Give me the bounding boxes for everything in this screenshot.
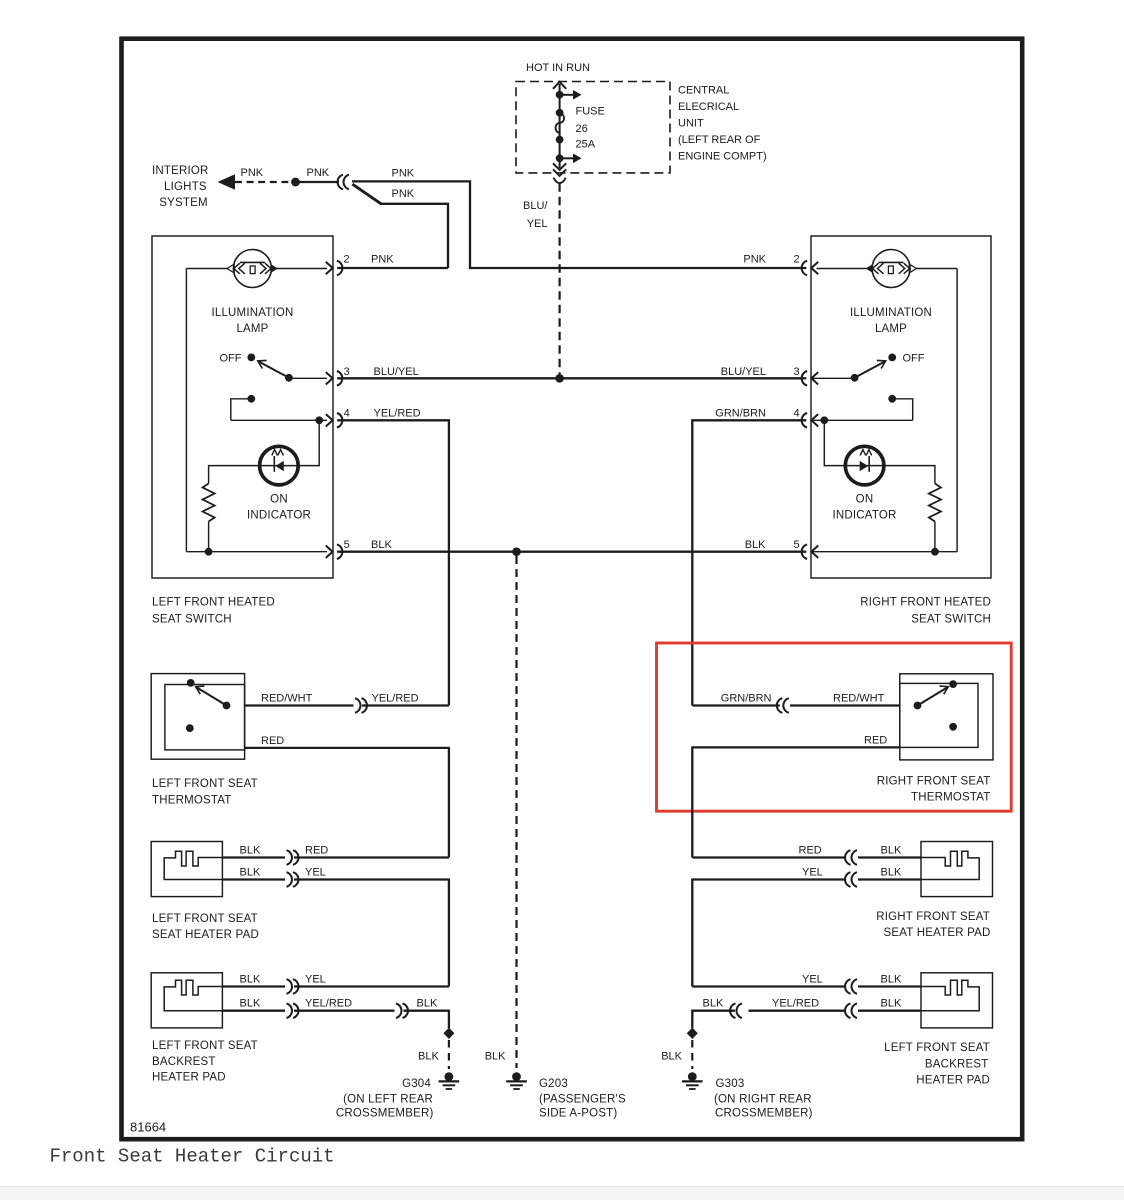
wire YEL/RED left pin4 down to thermostat — [337, 420, 449, 705]
heater element right seat pad — [921, 851, 979, 879]
switch blade right (heater switch) — [855, 361, 886, 378]
svg-text:25A: 25A — [576, 139, 596, 151]
svg-text:PNK: PNK — [392, 188, 415, 200]
svg-text:BLK: BLK — [661, 1051, 682, 1063]
svg-text:RED: RED — [261, 735, 284, 747]
pin 5 right switch — [811, 546, 818, 558]
arrow feed to other circuits (top) — [560, 94, 574, 96]
svg-text:CROSSMEMBER): CROSSMEMBER) — [715, 1108, 813, 1120]
svg-text:BLK: BLK — [703, 998, 724, 1010]
svg-text:SEAT HEATER PAD: SEAT HEATER PAD — [152, 929, 259, 941]
svg-text:THERMOSTAT: THERMOSTAT — [911, 792, 991, 804]
svg-text:BLK: BLK — [881, 867, 902, 879]
svg-text:CROSSMEMBER): CROSSMEMBER) — [336, 1108, 434, 1120]
switch contact OFF (left) — [247, 354, 255, 362]
svg-text:4: 4 — [344, 407, 350, 419]
wire BLK to ground drop G304 — [404, 1011, 449, 1029]
node resistor on pin5 line (left) — [205, 548, 213, 556]
wire PNK dashed to interior lights — [235, 181, 291, 183]
svg-text:81664: 81664 — [130, 1120, 166, 1135]
svg-text:INTERIOR: INTERIOR — [152, 165, 209, 177]
arrow out of CEU (double chevron down) — [553, 163, 566, 170]
node LED branch on pin4 (left) — [315, 416, 323, 424]
svg-text:YEL: YEL — [527, 218, 548, 230]
wire YEL top left backrest — [294, 985, 449, 987]
arrow up to HOT IN RUN — [553, 82, 566, 89]
wire BLK between switches — [337, 551, 806, 553]
connector right backrest bottom 2 — [845, 1003, 850, 1018]
right heated seat switch box — [811, 236, 991, 578]
LED ON indicator left — [260, 446, 299, 485]
svg-text:ELECRICAL: ELECRICAL — [678, 101, 739, 113]
svg-text:SEAT SWITCH: SEAT SWITCH — [911, 614, 991, 626]
svg-text:Front Seat Heater Circuit: Front Seat Heater Circuit — [50, 1146, 335, 1168]
wire YEL/RED left backrest — [294, 1010, 395, 1012]
wire pin4 down to ON indicator (left) — [300, 420, 319, 465]
wire YEL from left seat pad down to backrest — [294, 880, 449, 987]
heater element left seat pad — [164, 851, 222, 879]
pin 5 left switch — [326, 546, 333, 558]
wire RED from right thermostat down to seat pad — [692, 747, 900, 857]
connector left seat pad top — [287, 850, 292, 865]
ground G303 — [688, 1072, 697, 1081]
wire pin4 down to ON indicator (right) — [824, 420, 843, 465]
splice on G304 drop — [443, 1028, 454, 1039]
svg-text:3: 3 — [344, 366, 350, 378]
switch common node on pin 3 (left) — [285, 374, 293, 382]
svg-text:PNK: PNK — [307, 167, 330, 179]
central electrical unit dashed box — [516, 82, 670, 173]
wire BLK dashed down to G203 — [515, 556, 517, 1068]
svg-text:BLU/YEL: BLU/YEL — [721, 366, 766, 378]
wire pin3 internal (right) — [811, 377, 854, 379]
connector in-line right thermostat — [783, 698, 788, 713]
heater element right backrest pad — [921, 980, 979, 1010]
node BLK junction to G203 — [512, 547, 521, 556]
svg-text:BLK: BLK — [417, 998, 438, 1010]
wire BLK top right backrest — [858, 985, 921, 987]
node BLU/YEL junction with fuse feed — [555, 374, 564, 383]
svg-text:2: 2 — [794, 254, 800, 266]
wire BLK top left backrest — [222, 985, 285, 987]
svg-text:YEL/RED: YEL/RED — [772, 998, 819, 1010]
svg-text:LIGHTS: LIGHTS — [164, 181, 207, 193]
wire LED to resistor (right) — [884, 466, 935, 484]
connector left backrest bottom 1 — [287, 1003, 292, 1018]
pin 4 left switch — [326, 414, 333, 426]
svg-text:2: 2 — [344, 254, 350, 266]
svg-text:LEFT FRONT SEAT: LEFT FRONT SEAT — [152, 1040, 258, 1052]
svg-text:PNK: PNK — [743, 254, 766, 266]
wire GRN/BRN right pin4 down to thermostat — [692, 420, 806, 705]
resistor right — [929, 484, 941, 522]
arrow to interior lights system — [218, 174, 236, 189]
svg-text:YEL: YEL — [305, 974, 326, 986]
svg-text:3: 3 — [794, 366, 800, 378]
switch contact OFF (right) — [888, 354, 896, 362]
svg-text:BACKREST: BACKREST — [152, 1056, 216, 1068]
left front seat seat heater pad box — [151, 842, 222, 897]
svg-text:G203: G203 — [539, 1078, 568, 1090]
wire RED/WHT from left thermostat — [245, 704, 354, 706]
svg-text:(ON RIGHT REAR: (ON RIGHT REAR — [714, 1094, 812, 1106]
wire BLK bottom left backrest — [222, 1010, 285, 1012]
node LED branch on pin4 (right) — [820, 416, 828, 424]
svg-text:BLK: BLK — [485, 1051, 506, 1063]
svg-text:BLK: BLK — [881, 998, 902, 1010]
wire BLK bottom right backrest to ground drop — [692, 1011, 921, 1029]
svg-text:LEFT FRONT SEAT: LEFT FRONT SEAT — [152, 913, 258, 925]
connector in-line PNK pair — [338, 175, 343, 190]
svg-text:BLK: BLK — [745, 539, 766, 551]
wire BLU/YEL between switches — [337, 377, 806, 379]
svg-text:RED/WHT: RED/WHT — [261, 693, 313, 705]
svg-text:RIGHT FRONT HEATED: RIGHT FRONT HEATED — [860, 597, 991, 609]
svg-text:BLK: BLK — [418, 1051, 439, 1063]
wire pin4 internal (right) — [811, 419, 912, 421]
wire pin5 internal (left) — [186, 551, 327, 553]
svg-text:BLK: BLK — [240, 998, 261, 1010]
wire PNK to left heated seat switch pin 2 — [337, 184, 448, 268]
pin 2 right switch — [811, 262, 818, 274]
wire BLK top left seat pad — [222, 856, 285, 858]
left front seat thermostat box — [151, 674, 244, 760]
svg-text:RED: RED — [305, 845, 328, 857]
wire resistor to pin5 (left) — [208, 522, 210, 552]
svg-text:GRN/BRN: GRN/BRN — [715, 407, 766, 419]
svg-text:YEL/RED: YEL/RED — [374, 407, 421, 419]
svg-text:26: 26 — [576, 123, 588, 135]
svg-text:RED: RED — [864, 735, 887, 747]
switch contact lower (left) — [247, 395, 255, 403]
LED ON indicator right — [845, 446, 884, 485]
svg-text:SIDE A-POST): SIDE A-POST) — [539, 1108, 617, 1120]
svg-text:SEAT SWITCH: SEAT SWITCH — [152, 614, 232, 626]
connector right backrest bottom 1 — [730, 1003, 735, 1018]
pin 3 left switch — [326, 372, 333, 384]
wire YEL right seat pad down to backrest — [692, 880, 844, 987]
wire BLK top right seat pad — [858, 856, 921, 858]
svg-text:PNK: PNK — [241, 167, 264, 179]
illumination lamp right — [916, 268, 957, 270]
svg-text:BLK: BLK — [881, 974, 902, 986]
wire BLK bottom right seat pad — [858, 878, 921, 880]
svg-text:(LEFT REAR OF: (LEFT REAR OF — [678, 134, 761, 146]
illumination lamp left — [186, 268, 227, 270]
svg-text:LAMP: LAMP — [236, 323, 268, 335]
wire PNK splice to connector — [300, 181, 340, 183]
resistor left — [203, 484, 215, 522]
arrow feed to other circuits (bottom) — [560, 157, 574, 159]
svg-text:ENGINE COMPT): ENGINE COMPT) — [678, 151, 767, 163]
wire LED to resistor (left) — [209, 466, 260, 484]
svg-text:RIGHT FRONT SEAT: RIGHT FRONT SEAT — [877, 776, 991, 788]
switch contact lower (right) — [888, 395, 896, 403]
pin 2 left switch — [326, 262, 333, 274]
svg-text:RED: RED — [799, 845, 822, 857]
connector left backrest bottom 2 — [396, 1003, 401, 1018]
heater element left backrest pad — [164, 980, 222, 1010]
svg-text:FUSE: FUSE — [576, 106, 605, 118]
connector left seat pad bottom — [287, 872, 292, 887]
wire YEL/RED connector to pin4 drop — [362, 704, 449, 706]
svg-text:UNIT: UNIT — [678, 118, 704, 130]
svg-text:LEFT FRONT SEAT: LEFT FRONT SEAT — [884, 1042, 990, 1054]
svg-text:YEL: YEL — [802, 867, 823, 879]
svg-text:BLK: BLK — [371, 539, 392, 551]
svg-text:SEAT HEATER PAD: SEAT HEATER PAD — [884, 927, 991, 939]
ground G304 — [445, 1072, 454, 1081]
wire BLK dashed to G303 — [691, 1040, 693, 1069]
node splice on PNK wire — [291, 178, 300, 187]
wire resistor to pin5 (right) — [934, 522, 936, 552]
wire pin5 internal (right) — [811, 551, 957, 553]
svg-text:BACKREST: BACKREST — [925, 1059, 989, 1071]
svg-text:(PASSENGER'S: (PASSENGER'S — [539, 1094, 626, 1106]
svg-text:G303: G303 — [716, 1078, 745, 1090]
wire RED from left thermostat down to seat pad — [245, 748, 449, 858]
svg-text:SYSTEM: SYSTEM — [159, 197, 208, 209]
wire PNK to right heated seat switch pin 2 — [352, 181, 806, 268]
svg-text:YEL: YEL — [802, 974, 823, 986]
connector at CEU output — [554, 178, 566, 184]
svg-text:BLK: BLK — [881, 845, 902, 857]
svg-text:LAMP: LAMP — [875, 323, 907, 335]
svg-text:G304: G304 — [402, 1078, 431, 1090]
svg-text:BLK: BLK — [240, 974, 261, 986]
wire BLK bottom left seat pad — [222, 878, 285, 880]
svg-text:GRN/BRN: GRN/BRN — [721, 693, 772, 705]
svg-text:BLK: BLK — [240, 845, 261, 857]
svg-text:RIGHT FRONT SEAT: RIGHT FRONT SEAT — [876, 911, 990, 923]
connector right backrest top — [845, 979, 850, 994]
svg-text:5: 5 — [794, 539, 800, 551]
svg-text:PNK: PNK — [392, 168, 415, 180]
connector left backrest top — [287, 979, 292, 994]
svg-text:BLU/: BLU/ — [523, 200, 548, 212]
node junction above fuse — [556, 91, 564, 99]
svg-text:PNK: PNK — [371, 254, 394, 266]
node resistor on pin5 line (right) — [931, 548, 939, 556]
svg-text:LEFT FRONT SEAT: LEFT FRONT SEAT — [152, 778, 258, 790]
svg-text:(ON LEFT REAR: (ON LEFT REAR — [343, 1094, 433, 1106]
thermostat switch right — [914, 702, 922, 710]
svg-text:YEL/RED: YEL/RED — [305, 998, 352, 1010]
svg-text:HEATER PAD: HEATER PAD — [916, 1075, 990, 1087]
svg-text:ILLUMINATION: ILLUMINATION — [850, 307, 932, 319]
svg-text:INDICATOR: INDICATOR — [833, 510, 897, 522]
wire GRN/BRN to right thermostat — [692, 704, 780, 706]
left heated seat switch box — [152, 236, 333, 578]
svg-text:HOT IN RUN: HOT IN RUN — [526, 62, 590, 74]
connector right seat pad top — [845, 850, 850, 865]
svg-text:ILLUMINATION: ILLUMINATION — [211, 307, 293, 319]
wire BLU/YEL dashed from fuse to switches — [558, 183, 560, 374]
fuse 26 25A — [556, 109, 564, 117]
switch common node on pin 3 (right) — [851, 374, 859, 382]
connector in-line left thermostat — [355, 698, 360, 713]
pin 3 right switch — [811, 372, 818, 384]
svg-text:4: 4 — [794, 407, 800, 419]
svg-text:HEATER PAD: HEATER PAD — [152, 1072, 226, 1084]
svg-text:YEL/RED: YEL/RED — [372, 693, 419, 705]
svg-text:OFF: OFF — [220, 353, 242, 365]
svg-text:5: 5 — [344, 539, 350, 551]
svg-text:LEFT FRONT HEATED: LEFT FRONT HEATED — [152, 597, 275, 609]
wire internal bus left (pin5 to lamp) — [185, 269, 187, 552]
svg-text:BLK: BLK — [240, 867, 261, 879]
svg-text:OFF: OFF — [903, 353, 925, 365]
left front seat backrest heater pad box — [151, 973, 222, 1028]
wire BLK dashed to G304 — [448, 1040, 450, 1069]
svg-text:ON: ON — [270, 494, 288, 506]
thermostat switch left — [223, 702, 231, 710]
connector right seat pad bottom — [845, 872, 850, 887]
wire RED to left seat pad — [294, 856, 449, 858]
wire contact to pin4 (right) — [892, 399, 913, 421]
svg-text:INDICATOR: INDICATOR — [247, 510, 311, 522]
wire pin3 internal (left) — [289, 377, 327, 379]
switch blade left (heater switch) — [258, 361, 289, 378]
highlight box around right thermostat — [657, 643, 1012, 811]
svg-text:RED/WHT: RED/WHT — [833, 693, 885, 705]
svg-text:CENTRAL: CENTRAL — [678, 85, 729, 97]
splice on G303 drop — [687, 1028, 698, 1039]
wire hot feed vertical inside CEU — [559, 84, 561, 168]
svg-text:THERMOSTAT: THERMOSTAT — [152, 795, 232, 807]
right front seat thermostat box — [900, 674, 993, 760]
wire RED/WHT connector to thermostat — [790, 704, 900, 706]
wire internal bus right (pin5 to lamp) — [956, 269, 958, 552]
node junction below fuse — [556, 154, 564, 162]
ground G203 — [512, 1072, 521, 1081]
svg-text:BLU/YEL: BLU/YEL — [374, 366, 419, 378]
svg-text:YEL: YEL — [305, 867, 326, 879]
right front seat seat heater pad box — [921, 842, 993, 897]
wire RED to right seat pad — [692, 856, 844, 858]
pin 4 right switch — [811, 414, 818, 426]
right backrest heater pad box — [921, 973, 993, 1028]
svg-text:ON: ON — [856, 494, 874, 506]
wire pin4 internal (left) — [231, 419, 327, 421]
wire YEL top right backrest — [692, 985, 844, 987]
wire contact to pin4 (left) — [231, 399, 252, 421]
